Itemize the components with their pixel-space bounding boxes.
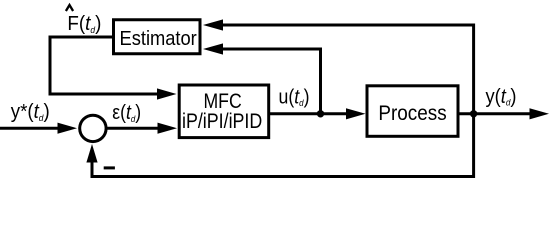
svg-text:y*(td): y*(td)	[11, 100, 50, 123]
svg-text:F(td): F(td)	[67, 12, 101, 35]
svg-text:ε(td): ε(td)	[112, 101, 141, 124]
svg-text:Process: Process	[378, 102, 446, 125]
svg-text:u(td): u(td)	[279, 86, 310, 108]
svg-text:y(td): y(td)	[486, 86, 517, 108]
svg-text:Estimator: Estimator	[120, 28, 198, 50]
svg-text:iP/iPI/iPID: iP/iPI/iPID	[182, 109, 262, 133]
